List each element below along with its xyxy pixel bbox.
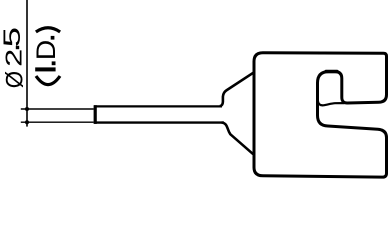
dimension terminator dot top	[25, 107, 29, 111]
dimension extension line bottom (I.D. lower)	[21, 121, 94, 123]
svg-text:Ø: Ø	[1, 71, 28, 88]
label letter I of (I.D.)	[35, 67, 55, 71]
dimension label decimal point	[16, 46, 19, 49]
bayonet slot cap top emphasis	[326, 70, 337, 73]
cone flare top curve	[220, 73, 253, 106]
label dot after I	[52, 61, 56, 65]
svg-text:2: 2	[0, 49, 26, 67]
nozzle pipe left end cap	[94, 105, 97, 124]
svg-text:5: 5	[0, 27, 25, 47]
dimension terminator dot bottom	[25, 120, 29, 124]
dimension extension line top (I.D. upper)	[21, 108, 94, 110]
label close paren of (I.D.)	[36, 28, 60, 32]
nozzle body outline with bayonet slot	[254, 53, 387, 177]
dimension line vertical	[26, 0, 28, 127]
groove floor internal edge	[318, 101, 345, 105]
label dot after D	[51, 36, 55, 40]
nozzle pipe bottom wall	[94, 121, 224, 123]
cone flare bottom curve	[222, 123, 254, 155]
label open paren of (I.D.)	[36, 76, 60, 85]
svg-text:D: D	[31, 40, 61, 60]
nozzle pipe top wall	[94, 105, 222, 107]
